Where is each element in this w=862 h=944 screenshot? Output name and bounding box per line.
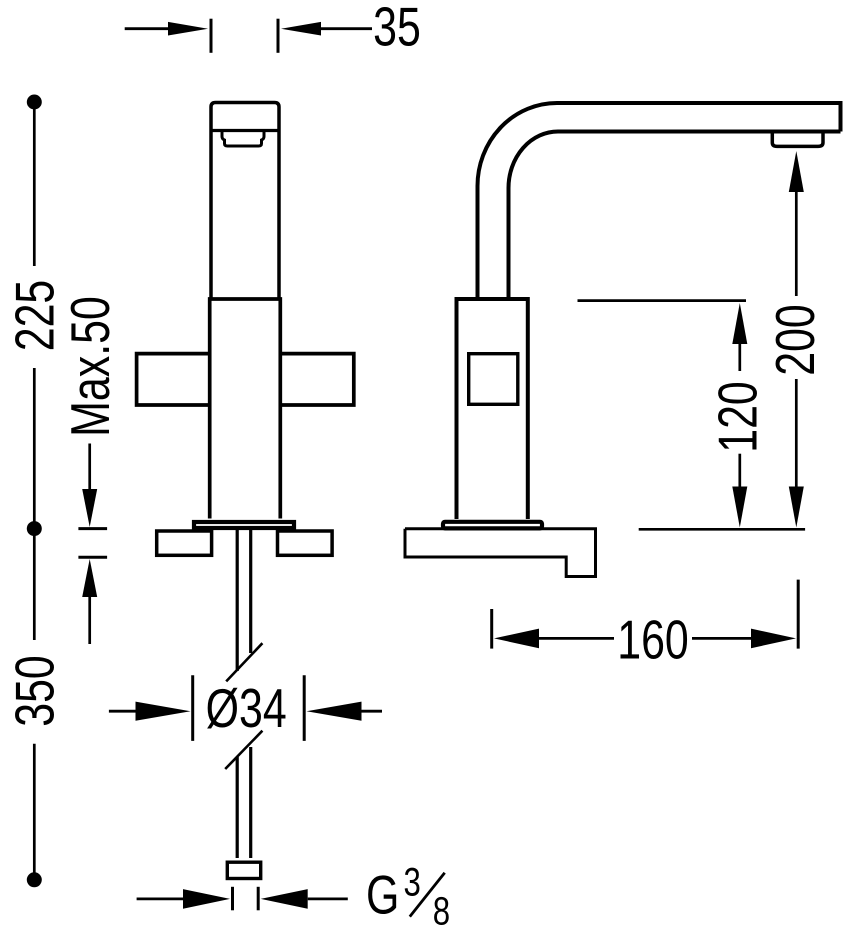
svg-text:3: 3 (404, 860, 421, 905)
dim 350: lower line (33, 744, 36, 880)
flange (front) (194, 522, 294, 528)
logo square (side) (469, 354, 518, 405)
dim Max.50: upper tick (78, 527, 107, 530)
dim 120: lower line (738, 454, 741, 487)
dim G3/8: fraction slash (410, 873, 445, 917)
dim 350: bottom dot (27, 872, 42, 887)
svg-text:160: 160 (617, 609, 689, 670)
dim Max.50: upper arrow line (88, 444, 91, 491)
svg-text:8: 8 (433, 889, 450, 934)
pipe break mark lower (225, 731, 262, 769)
svg-text:35: 35 (373, 0, 421, 58)
G3/8 connector (front) (227, 862, 260, 878)
dim O34: left tick (191, 675, 194, 741)
faucet body (front) (210, 299, 281, 519)
dim 225: lower line (33, 368, 36, 529)
handle bar right (front) (281, 354, 354, 405)
dim 35: right tick (277, 19, 280, 53)
dim G3/8: right arrowhead (261, 889, 308, 909)
countertop (side view) (405, 529, 596, 577)
dim 160: left tick (490, 609, 493, 649)
dim 160: right line (692, 637, 756, 640)
svg-text:120: 120 (707, 381, 768, 453)
dim Max.50: down arrowhead (82, 489, 97, 527)
spout cap line (front) (210, 129, 281, 132)
spout outlet (side view) (772, 132, 823, 147)
svg-text:200: 200 (765, 304, 826, 376)
base plate left (front) (157, 531, 212, 555)
dim Max.50: lower arrow line (88, 597, 91, 644)
dim O34: left line (109, 710, 137, 713)
aerator (front) (222, 132, 264, 147)
faucet body (side) (457, 299, 528, 519)
svg-text:Ø34: Ø34 (206, 678, 287, 739)
handle bar left (front) (137, 354, 209, 405)
spout outer profile (side view) (478, 103, 841, 300)
dim 160: left arrowhead (494, 629, 539, 649)
svg-text:G: G (366, 864, 399, 925)
dim 160: right arrowhead (751, 629, 796, 649)
dim O34: right arrowhead (307, 702, 362, 721)
dim 200: up arrowhead (789, 151, 804, 192)
dim G3/8: left line (137, 898, 185, 901)
dim O34: right tick (303, 675, 306, 741)
front view spout column (211, 103, 279, 301)
dim O34: right line (360, 710, 382, 713)
dim 200: lower line (795, 379, 798, 487)
base plate (side) (443, 522, 542, 529)
dim 35: left arrow line (125, 27, 170, 30)
dim Max.50: up arrowhead (82, 559, 97, 597)
dim 200: down arrowhead (789, 487, 804, 528)
dim 120: down arrowhead (732, 487, 747, 528)
dim 225: upper line (33, 102, 36, 266)
svg-text:225: 225 (5, 280, 66, 352)
dim G3/8: left arrowhead (183, 889, 230, 909)
dim 35: left tick (210, 19, 213, 53)
dim 350: upper line (33, 529, 36, 640)
dim G3/8: left tick (231, 887, 234, 911)
dim 160: left line (538, 637, 614, 640)
dim 120: upper line (738, 343, 741, 371)
dim 225: top dot (27, 95, 42, 110)
dim 160: right tick (797, 580, 800, 649)
dim 120: up arrowhead (732, 303, 747, 344)
supply pipe left line (236, 530, 239, 858)
supply pipe right line (249, 530, 252, 858)
dim O34: left arrowhead (136, 702, 191, 721)
dim Max.50: lower tick (78, 556, 107, 559)
dim 200: upper line (795, 191, 798, 296)
dim 35: right line (321, 27, 372, 30)
dim G3/8: right tick (257, 887, 260, 911)
dim G3/8: right line (308, 898, 348, 901)
base plate right (front) (278, 531, 333, 555)
dim 35: left arrowhead (168, 22, 208, 36)
pipe break mark upper (226, 643, 262, 681)
spout inner profile + underside (side view) (509, 132, 841, 300)
dim 120/200: bottom reference line (639, 528, 805, 531)
svg-text:Max.50: Max.50 (60, 296, 121, 437)
dim 120: top reference line (578, 299, 747, 302)
dim 35: right arrowhead (281, 22, 321, 36)
svg-text:350: 350 (5, 655, 66, 727)
dim 225: middle dot (27, 521, 42, 536)
